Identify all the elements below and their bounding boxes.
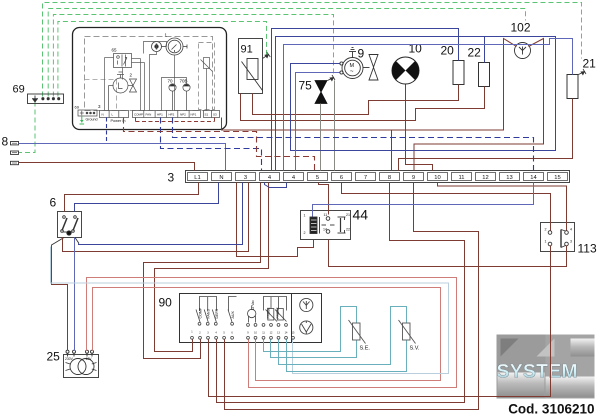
wire ground green bus 4 (69 pin to 91 arrow): [58, 22, 267, 97]
controller 90 clock icon: [300, 321, 313, 334]
svg-text:5: 5: [316, 175, 319, 181]
svg-text:COMP: COMP: [134, 113, 143, 117]
wire terminal 10 to relay 113 pin 4: [438, 183, 567, 231]
wire terminal 4 to controller 90 terminal 1: [155, 183, 269, 352]
svg-text:SYSTEM: SYSTEM: [497, 361, 578, 383]
wire transformer 12V to controller 90 (red a): [87, 278, 457, 388]
wire heater 21 to terminal 8: [399, 99, 573, 171]
svg-text:12 Vac: 12 Vac: [251, 300, 255, 311]
svg-text:113: 113: [578, 242, 597, 256]
terminal strip 3: [186, 171, 570, 183]
connector 8 lug 2: [11, 151, 19, 154]
wire buzzer 102 right leg to terminal 9: [414, 39, 544, 171]
fan 2 on board: [109, 72, 137, 111]
wire switch 6 output R to terminal 3: [79, 183, 243, 245]
wire switch 6 sensor to controller 90 (pale blue): [51, 247, 449, 374]
wire neutral stub1 to N: [19, 144, 226, 171]
probe 70 on board: [169, 84, 176, 111]
wire terminal 14 to relay 44 coil pin 1: [313, 183, 534, 217]
controller 90 probe labels: [267, 307, 281, 318]
logo SYSTEM: [497, 335, 595, 399]
wire valve 75 chassis to terminal 6: [334, 81, 336, 171]
svg-text:S3: S3: [213, 113, 217, 117]
wire jumper terminal 4 to terminal 4: [265, 183, 287, 188]
board inner dashed enclosure: [85, 37, 213, 111]
wire terminal 3 to relay 44 coil pin 2: [237, 183, 314, 257]
wire board to terminals 3 and 5 (red dashed): [124, 118, 315, 171]
svg-text:N: N: [219, 175, 223, 181]
svg-text:1: 1: [545, 240, 547, 244]
svg-text:102: 102: [511, 21, 531, 35]
wire valve 75 to terminal 5: [320, 104, 322, 171]
board internal wiring: [105, 42, 187, 111]
fan motor 9: [340, 48, 378, 81]
wire switch 6 leg to transformer 230V: [52, 245, 68, 351]
svg-text:65: 65: [112, 48, 118, 53]
connector 8 lug 3: [11, 161, 19, 164]
svg-text:3: 3: [244, 175, 247, 181]
svg-text:230V: 230V: [65, 357, 74, 361]
svg-text:9: 9: [358, 47, 365, 61]
svg-text:NP1: NP1: [191, 113, 197, 117]
connector 69 (external ground connector): [28, 94, 64, 104]
svg-text:S.V.: S.V.: [410, 346, 420, 352]
relay 113: [541, 223, 575, 252]
wire relay 44 pin 11 to terminal 5: [319, 183, 329, 215]
wire transformer 12V to controller 90 (red b): [93, 288, 441, 381]
wire switch 6 to transformer 230V neutral: [74, 238, 76, 351]
svg-text:2: 2: [545, 228, 547, 232]
svg-text:DEFR: DEFR: [215, 308, 219, 318]
svg-text:22: 22: [468, 46, 482, 60]
relay 44 pin labels: [304, 213, 351, 235]
heater 20: [453, 61, 464, 85]
svg-text:8: 8: [2, 135, 9, 149]
connector 8 lug 1: [11, 142, 19, 145]
wire terminal 4 to heater 21 top: [284, 39, 573, 171]
wire L1 to switch 6 input: [65, 183, 199, 212]
ground arrow at 75: [328, 75, 336, 81]
svg-text:25: 25: [47, 350, 61, 364]
heater 22: [479, 63, 490, 87]
svg-text:21: 21: [583, 57, 597, 71]
svg-text:S.E.: S.E.: [360, 346, 371, 352]
controller 90 probe thermistors: [262, 297, 287, 327]
svg-text:PROBE: PROBE: [276, 307, 280, 318]
svg-text:69: 69: [13, 84, 25, 96]
controller 90 box: [180, 294, 322, 343]
wire terminal 4 to controller 90 terminal 2: [144, 183, 261, 359]
board sub dashed enclosure (fan section): [85, 80, 117, 110]
terminal strip labels: [194, 175, 560, 181]
wire terminal 9 to controller 90 terminal 5: [225, 183, 479, 410]
svg-text:FAN: FAN: [146, 113, 152, 117]
sensor 66: [201, 58, 213, 111]
svg-text:4: 4: [570, 228, 572, 232]
wire relay 113 pin 1 to controller 90 terminal 3: [209, 246, 551, 397]
wire N to switch 6 input: [75, 183, 219, 212]
svg-text:11: 11: [324, 213, 328, 217]
controller 90 terminal numbers: [191, 331, 295, 335]
wire ground green bus 1 (69 pin to heater 21): [43, 3, 582, 97]
thermostat 91: [239, 39, 263, 94]
svg-text:12V: 12V: [86, 357, 93, 361]
probe 70B on board: [183, 84, 190, 111]
relay 113 pin labels: [545, 228, 573, 244]
pressure device 1 on board (small + large circle): [152, 38, 188, 55]
svg-text:6: 6: [340, 175, 343, 181]
svg-text:44: 44: [353, 207, 369, 223]
wire lamp 10 to terminal 10: [406, 85, 433, 171]
svg-text:12: 12: [482, 175, 488, 181]
controller 90 switch labels: [199, 307, 236, 318]
compressor lamp 10: [392, 57, 419, 84]
wire ground green bus 2 (69 pin to buzzer 102 shield): [48, 9, 525, 97]
wire ground green 69 to lug 2 of connector 8: [19, 102, 36, 153]
svg-text:22: 22: [346, 228, 350, 232]
svg-text:13: 13: [506, 175, 512, 181]
sensor 66 dashed enclosure: [199, 43, 215, 110]
svg-text:FANS: FANS: [207, 309, 211, 319]
switch 6: [52, 212, 82, 246]
control board outline: [73, 28, 227, 130]
wire terminal 4 to motor 9 and heater 21 loop: [276, 37, 556, 171]
ground symbol under board connector: [80, 116, 85, 124]
svg-text:70: 70: [168, 79, 174, 84]
svg-text:Ground: Ground: [86, 118, 98, 122]
wire terminal 8 to controller 90 terminal 4: [217, 183, 465, 403]
wire buzzer 102 left leg to board: [222, 39, 517, 131]
controller 90 12Vac secondary: [247, 306, 257, 327]
board terminal labels: [102, 113, 218, 117]
board terminal strip: [100, 111, 220, 118]
svg-text:PROBE: PROBE: [267, 307, 271, 318]
wire terminal 4 to heater 20 top: [272, 29, 459, 171]
wire board to terminal 14 (blue dashed): [173, 118, 534, 171]
svg-text:L1: L1: [194, 175, 200, 181]
ground arrow at 91: [263, 52, 271, 59]
svg-text:3: 3: [168, 171, 175, 185]
controller 90 bottom terminal row: [191, 336, 295, 339]
wire ground green bus 3 (69 pin to valve 75 arrow): [53, 15, 333, 97]
relay 44: [301, 211, 351, 240]
controller 90 aux switch: [228, 297, 237, 326]
svg-text:21: 21: [346, 213, 350, 217]
buzzer 102: [515, 43, 531, 59]
svg-text:~: ~: [350, 69, 354, 75]
svg-text:HP2: HP2: [169, 113, 175, 117]
wire board to terminal 4 (blue dashed): [161, 118, 262, 171]
probe S.V.: [399, 320, 416, 344]
board ground connector 69: [78, 110, 97, 116]
wire board drop (blue dashed): [106, 118, 108, 144]
probe S.E.: [349, 320, 366, 344]
svg-text:1: 1: [304, 214, 306, 218]
svg-text:75: 75: [299, 79, 313, 93]
wire terminal 6 to relay 113 pin 2: [342, 183, 551, 231]
wire branch to terminal 8: [391, 130, 393, 171]
svg-text:NP2: NP2: [180, 113, 186, 117]
svg-text:Cod. 3106210: Cod. 3106210: [508, 402, 594, 417]
svg-text:COMP: COMP: [199, 307, 203, 318]
svg-text:90: 90: [159, 296, 173, 310]
svg-text:15: 15: [554, 175, 560, 181]
svg-text:8: 8: [388, 175, 391, 181]
wire terminal 4 to motor 9 pin 2: [296, 73, 340, 171]
svg-text:69: 69: [75, 105, 80, 110]
wire heater 20 to thermostat 91: [253, 85, 459, 115]
controller 90 display icon psi: [300, 298, 313, 311]
wire board bus (red dashed): [136, 118, 215, 122]
wire controller 90 to probe S.E. top (teal): [264, 307, 357, 352]
svg-text:6: 6: [50, 196, 57, 210]
svg-text:14: 14: [323, 228, 327, 232]
svg-text:10: 10: [409, 42, 423, 56]
wire switch 6 output L to terminal 3: [63, 183, 249, 252]
svg-text:HP1: HP1: [157, 113, 163, 117]
heater 21: [567, 75, 578, 99]
svg-text:14: 14: [530, 175, 537, 181]
ground arrow at 21: [579, 69, 587, 75]
svg-text:2: 2: [304, 231, 306, 235]
wire probe S.E. to controller 90 (teal): [271, 340, 357, 358]
controller 90 relay switches COMP FANS DEFR: [196, 297, 217, 326]
wire heater 22 to thermostat 91: [241, 87, 485, 121]
solenoid valve 75: [315, 81, 327, 104]
svg-text:91: 91: [241, 44, 253, 56]
wire heater 22 top tap: [484, 37, 486, 63]
svg-text:AUX: AUX: [231, 311, 235, 319]
svg-text:3: 3: [570, 240, 572, 244]
transformer 25: [64, 350, 99, 377]
svg-text:10: 10: [434, 175, 440, 181]
wire relay 44 pin 14 to relay 113 pin 3: [329, 240, 567, 267]
svg-text:20: 20: [441, 44, 455, 58]
wire controller 90 to probe S.V. top (teal): [279, 307, 407, 365]
wire probe S.V. to controller 90 (teal): [287, 340, 407, 372]
svg-text:11: 11: [458, 175, 464, 181]
relay 65 on board: [114, 54, 132, 68]
wire phase stub3 to L1: [19, 163, 195, 171]
svg-text:N: N: [102, 113, 104, 117]
svg-text:S1: S1: [205, 113, 209, 117]
svg-text:7: 7: [364, 175, 367, 181]
svg-text:9: 9: [412, 175, 415, 181]
